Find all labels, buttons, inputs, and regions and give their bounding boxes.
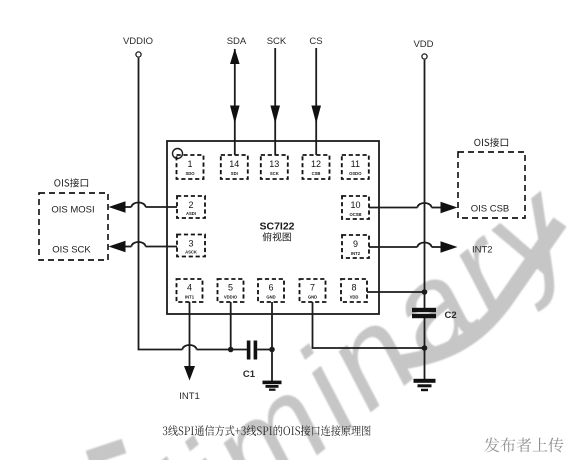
svg-text:INT1: INT1 <box>185 295 195 300</box>
svg-text:8: 8 <box>351 283 356 293</box>
svg-text:11: 11 <box>351 159 360 169</box>
svg-text:INT1: INT1 <box>179 391 200 402</box>
svg-text:INT2: INT2 <box>472 245 493 256</box>
svg-text:OIS MOSI: OIS MOSI <box>51 205 94 216</box>
svg-text:7: 7 <box>310 283 315 293</box>
svg-text:OIS CSB: OIS CSB <box>471 204 510 215</box>
svg-text:SCK: SCK <box>270 171 279 176</box>
svg-text:VDDIO: VDDIO <box>224 295 238 300</box>
svg-text:SDA: SDA <box>227 36 247 47</box>
svg-text:SDI: SDI <box>231 171 238 176</box>
svg-text:ASCK: ASCK <box>185 250 197 255</box>
svg-text:OSDO: OSDO <box>349 171 362 176</box>
svg-text:2: 2 <box>188 200 193 210</box>
svg-text:CS: CS <box>309 36 322 47</box>
svg-text:GND: GND <box>308 295 317 300</box>
svg-text:OCSB: OCSB <box>349 212 361 217</box>
svg-text:4: 4 <box>187 283 192 293</box>
svg-text:1: 1 <box>187 159 192 169</box>
svg-text:SDO: SDO <box>185 171 195 176</box>
svg-text:GND: GND <box>266 295 275 300</box>
svg-text:5: 5 <box>228 283 233 293</box>
svg-text:VDDIO: VDDIO <box>123 36 153 47</box>
svg-text:9: 9 <box>353 239 358 249</box>
svg-text:VDD: VDD <box>413 39 433 50</box>
svg-text:6: 6 <box>268 283 273 293</box>
svg-text:INT2: INT2 <box>351 251 361 256</box>
svg-text:OIS SCK: OIS SCK <box>52 245 91 256</box>
svg-text:CSB: CSB <box>312 171 321 176</box>
svg-text:VDD: VDD <box>350 295 359 300</box>
svg-text:12: 12 <box>311 159 321 169</box>
svg-text:10: 10 <box>350 200 360 210</box>
svg-text:C1: C1 <box>243 369 256 380</box>
svg-text:14: 14 <box>229 159 239 169</box>
svg-text:SCK: SCK <box>267 36 287 47</box>
svg-text:3: 3 <box>188 239 193 249</box>
svg-text:13: 13 <box>269 159 279 169</box>
svg-text:ASDI: ASDI <box>186 211 196 216</box>
svg-text:C2: C2 <box>445 310 457 321</box>
svg-text:SC7I22: SC7I22 <box>259 221 294 233</box>
